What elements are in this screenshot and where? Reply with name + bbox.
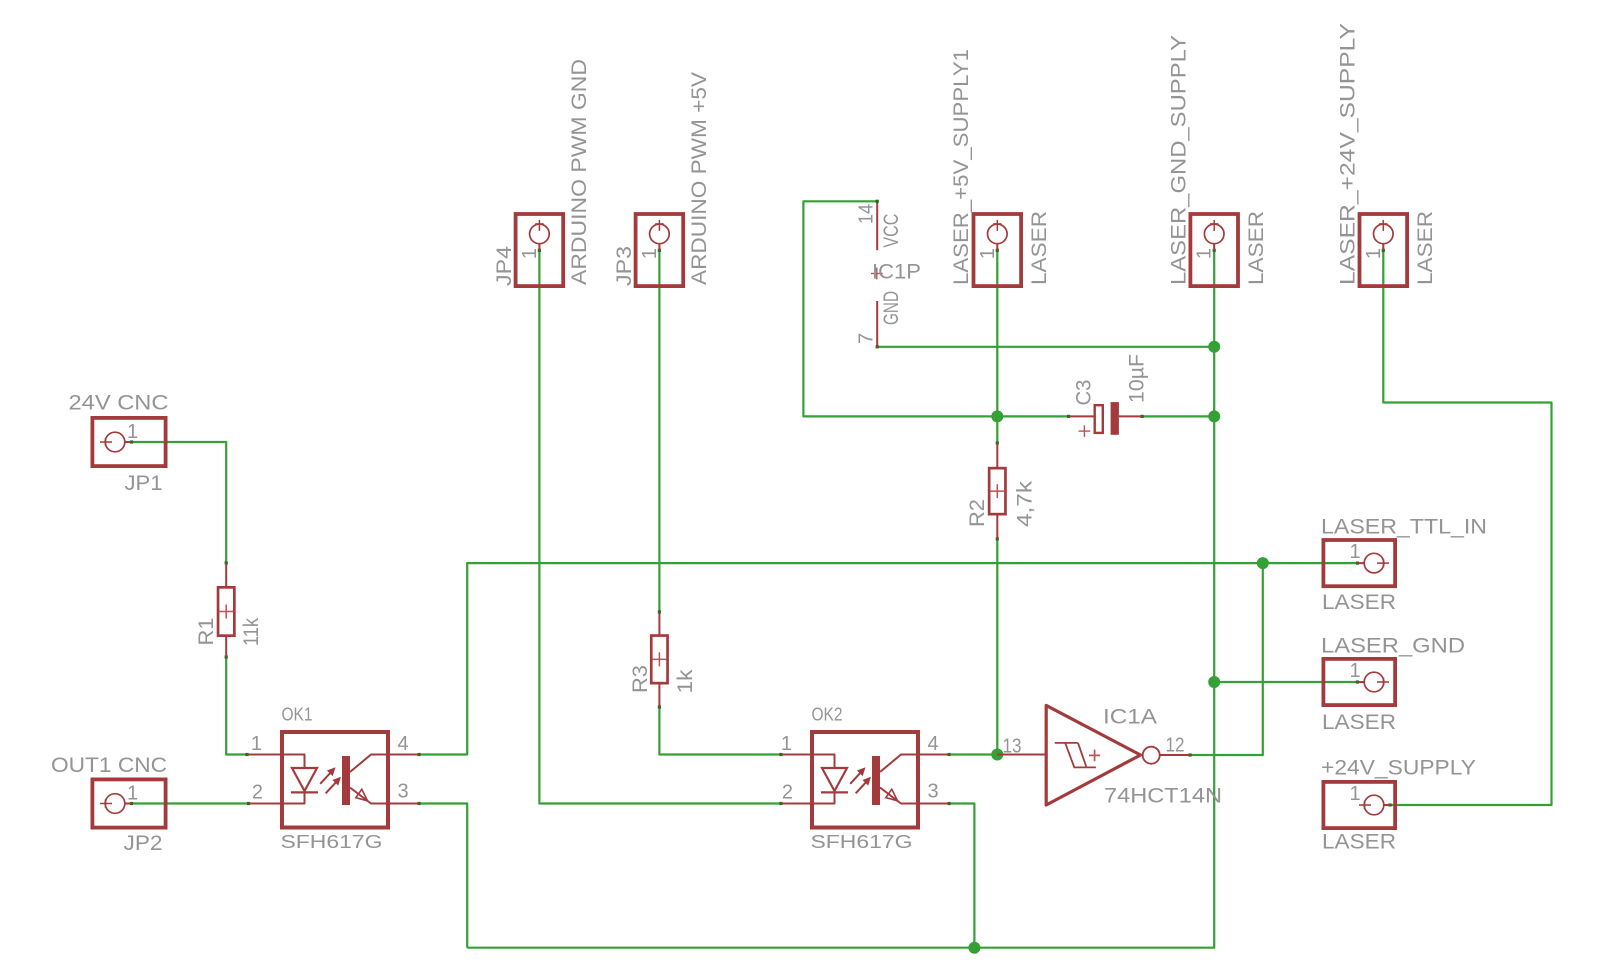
svg-text:11k: 11k (240, 618, 263, 646)
svg-text:JP2: JP2 (124, 832, 163, 855)
junction C3 right / GND vertical (1208, 410, 1220, 422)
svg-text:1: 1 (1350, 541, 1361, 563)
wire R1 bottom to OK1 pin1 (225, 655, 249, 756)
svg-text:IC1P: IC1P (872, 261, 921, 284)
net label LASER_GND (1321, 635, 1465, 658)
svg-text:OK2: OK2 (812, 705, 843, 725)
value label LASER (1245, 211, 1268, 285)
pin stubs OK1 (247, 755, 419, 804)
svg-text:1: 1 (1350, 783, 1361, 805)
svg-text:1: 1 (1350, 660, 1361, 682)
wire +5V header down to VCC rail (996, 249, 999, 417)
svg-text:OUT1 CNC: OUT1 CNC (51, 754, 167, 777)
junction GND rail / GND vertical (1208, 341, 1220, 353)
label JP1 (125, 472, 163, 495)
label JP3 (613, 246, 636, 286)
svg-text:LASER_GND: LASER_GND (1321, 635, 1465, 658)
svg-text:1: 1 (977, 248, 999, 259)
wire OK1 pin3 to bottom rail (417, 802, 467, 948)
resistor R3 (651, 636, 667, 684)
header LASER_TTL_IN (1323, 540, 1395, 586)
label SFH617G (281, 832, 383, 852)
svg-text:SFH617G: SFH617G (811, 832, 913, 852)
value label LASER (1322, 711, 1396, 734)
label OK2 (812, 705, 843, 725)
label R2 (966, 499, 989, 527)
pin stubs OK2 (781, 755, 949, 804)
resistor R1 pin stubs (225, 563, 227, 657)
svg-text:LASER: LASER (1322, 591, 1396, 614)
junction LASER_GND tap (1208, 676, 1220, 688)
wire OK2 pin3 down to bottom rail (947, 802, 974, 948)
wire JP1 to R1 top (130, 440, 228, 564)
svg-text:1: 1 (127, 783, 138, 805)
value label LASER (1414, 211, 1437, 285)
svg-text:4,7k: 4,7k (1014, 480, 1037, 527)
inverter IC1A output bubble (1143, 747, 1160, 764)
svg-text:LASER: LASER (1245, 211, 1268, 285)
wire OK1 pin4 up to LASER_TTL_IN line (417, 562, 1359, 757)
origin cross IC1P (871, 268, 883, 280)
svg-text:VCC: VCC (880, 214, 903, 248)
svg-text:R2: R2 (966, 499, 989, 527)
svg-text:10µF: 10µF (1126, 354, 1149, 403)
svg-text:13: 13 (1003, 736, 1022, 758)
inverter IC1A hysteresis symbol (1055, 743, 1096, 768)
wire VCC: IC1P pin14 to left rail corner (803, 201, 1070, 418)
wire GND vertical from LASER_GND_SUPPLY header down to bottom rail (467, 249, 1216, 948)
connector JP3 (636, 214, 684, 286)
svg-text:1: 1 (519, 248, 541, 259)
pin name GND (880, 291, 903, 325)
wire R2 bottom down to IC1A input node (996, 537, 999, 754)
header LASER_GND (1323, 659, 1395, 705)
resistor R2 pin stubs (996, 443, 998, 539)
capacitor C3 left plate (1095, 405, 1103, 433)
svg-text:R3: R3 (629, 665, 652, 693)
wire JP4 down and to OK2 pin2 (538, 249, 783, 805)
plus mark C3 (1079, 425, 1091, 437)
net label LASER_TTL_IN (1321, 516, 1487, 539)
label SFH617G (811, 832, 913, 852)
inverter IC1A triangle (1046, 705, 1140, 805)
svg-text:ARDUINO PWM +5V: ARDUINO PWM +5V (688, 72, 711, 285)
svg-text:14: 14 (856, 204, 878, 224)
svg-text:LASER: LASER (1028, 211, 1051, 285)
label IC1A (1103, 706, 1157, 729)
label 11k (240, 618, 263, 646)
label C3 (1073, 380, 1096, 406)
connector JP1 (92, 418, 165, 466)
pin number 7 (856, 333, 878, 344)
svg-text:74HCT14N: 74HCT14N (1104, 785, 1222, 808)
svg-text:LASER: LASER (1322, 831, 1396, 854)
svg-text:LASER: LASER (1322, 711, 1396, 734)
wire JP3 down to R3 top (658, 249, 661, 614)
wire C3 right plate to GND vertical (1141, 415, 1215, 418)
power symbol IC1P pin 7 GND (876, 301, 878, 347)
svg-text:LASER_GND_SUPPLY: LASER_GND_SUPPLY (1168, 35, 1191, 285)
svg-text:GND: GND (880, 291, 903, 325)
svg-text:OK1: OK1 (282, 705, 313, 725)
junction IC1A input node (991, 749, 1003, 761)
wire LASER_GND header to GND vertical (1214, 680, 1359, 683)
junction VCC rail / R2 / +5V header (991, 410, 1003, 422)
inverter IC1A output pin 12 (1160, 754, 1190, 756)
wire OK2 pin4 to IC1A input (947, 753, 997, 756)
optocoupler OK1 (282, 732, 388, 828)
svg-text:4: 4 (398, 733, 409, 755)
pin number 14 (856, 204, 878, 224)
svg-text:1: 1 (639, 248, 661, 259)
svg-text:IC1A: IC1A (1103, 706, 1157, 729)
svg-text:1: 1 (251, 733, 262, 755)
plus mark IC1A (1089, 750, 1100, 762)
svg-text:4: 4 (928, 733, 939, 755)
junction bottom rail / OK2 emitter (968, 942, 980, 954)
optocoupler OK2 (812, 732, 918, 828)
svg-text:1k: 1k (674, 669, 697, 694)
label 74HCT14N (1104, 785, 1222, 808)
label 24V CNC (69, 392, 169, 415)
wire JP2 to OK1 pin2 (130, 802, 250, 805)
value label LASER (1322, 831, 1396, 854)
svg-text:C3: C3 (1073, 380, 1096, 406)
capacitor C3 right plate (1111, 402, 1119, 435)
resistor R3 pin stubs (658, 612, 660, 707)
connector JP2 (92, 779, 165, 827)
net label LASER_+24V_SUPPLY (1337, 23, 1360, 285)
svg-text:LASER: LASER (1414, 211, 1437, 285)
svg-text:1: 1 (781, 733, 792, 755)
net label LASER_+5V_SUPPLY1 (950, 49, 973, 285)
header LASER_GND_SUPPLY (1190, 214, 1238, 286)
svg-text:7: 7 (856, 333, 878, 344)
header LASER_+24V_SUPPLY (1360, 214, 1408, 286)
junction TTL line / IC1A output riser (1257, 557, 1269, 569)
header +24V_SUPPLY (1323, 782, 1395, 828)
power symbol IC1P pin 14 VCC (876, 200, 879, 251)
connector JP4 (516, 214, 564, 286)
header LASER_+5V_SUPPLY1 (974, 214, 1022, 286)
svg-text:2: 2 (252, 782, 263, 804)
svg-text:JP1: JP1 (125, 472, 163, 495)
svg-text:JP4: JP4 (493, 246, 516, 286)
svg-text:12: 12 (1166, 735, 1185, 757)
svg-text:LASER_+24V_SUPPLY: LASER_+24V_SUPPLY (1337, 23, 1360, 285)
svg-text:SFH617G: SFH617G (281, 832, 383, 852)
svg-text:R1: R1 (195, 618, 218, 646)
svg-text:ARDUINO PWM GND: ARDUINO PWM GND (568, 59, 591, 285)
net label LASER_GND_SUPPLY (1168, 35, 1191, 285)
label JP2 (124, 832, 163, 855)
svg-text:3: 3 (928, 781, 939, 803)
pin name VCC (880, 214, 903, 248)
net label +24V_SUPPLY (1321, 757, 1476, 780)
svg-text:2: 2 (782, 782, 793, 804)
svg-text:3: 3 (398, 781, 409, 803)
resistor R2 (989, 468, 1005, 514)
value label LASER (1322, 591, 1396, 614)
resistor R1 (218, 587, 234, 635)
pin numbers OK1 (251, 733, 409, 804)
label JP4 (493, 246, 516, 286)
svg-text:LASER_TTL_IN: LASER_TTL_IN (1321, 516, 1487, 539)
label 4,7k (1014, 480, 1037, 527)
svg-text:1: 1 (1363, 248, 1385, 259)
pin numbers OK2 (781, 733, 939, 804)
pin number 12 (1166, 735, 1185, 757)
svg-text:JP3: JP3 (613, 246, 636, 286)
svg-text:LASER_+5V_SUPPLY1: LASER_+5V_SUPPLY1 (950, 49, 973, 285)
wire VCC rail down to R2 top (996, 416, 999, 444)
svg-text:24V CNC: 24V CNC (69, 392, 169, 415)
label OUT1 CNC (51, 754, 167, 777)
wire +24V: top supply header down right and to +24V_SUPPLY header (1382, 249, 1552, 807)
svg-text:1: 1 (127, 421, 138, 443)
net label ARDUINO PWM +5V (688, 72, 711, 285)
svg-text:1: 1 (1194, 248, 1216, 259)
label OK1 (282, 705, 313, 725)
wire IC1A output up to TTL line (1188, 563, 1262, 757)
label 1k (674, 669, 697, 694)
capacitor C3 pin stubs (1069, 415, 1142, 417)
svg-text:+24V_SUPPLY: +24V_SUPPLY (1321, 757, 1476, 780)
label 10uF (1126, 354, 1149, 403)
value label LASER (1028, 211, 1051, 285)
wire R3 bottom to OK2 pin1 (658, 705, 783, 756)
inverter IC1A pin 13 (997, 754, 1046, 756)
net label ARDUINO PWM GND (568, 59, 591, 285)
wire GND: IC1P pin7 to GND vertical (876, 345, 1215, 348)
label R3 (629, 665, 652, 693)
pin number 13 (1003, 736, 1022, 758)
label R1 (195, 618, 218, 646)
label IC1P (872, 261, 921, 284)
